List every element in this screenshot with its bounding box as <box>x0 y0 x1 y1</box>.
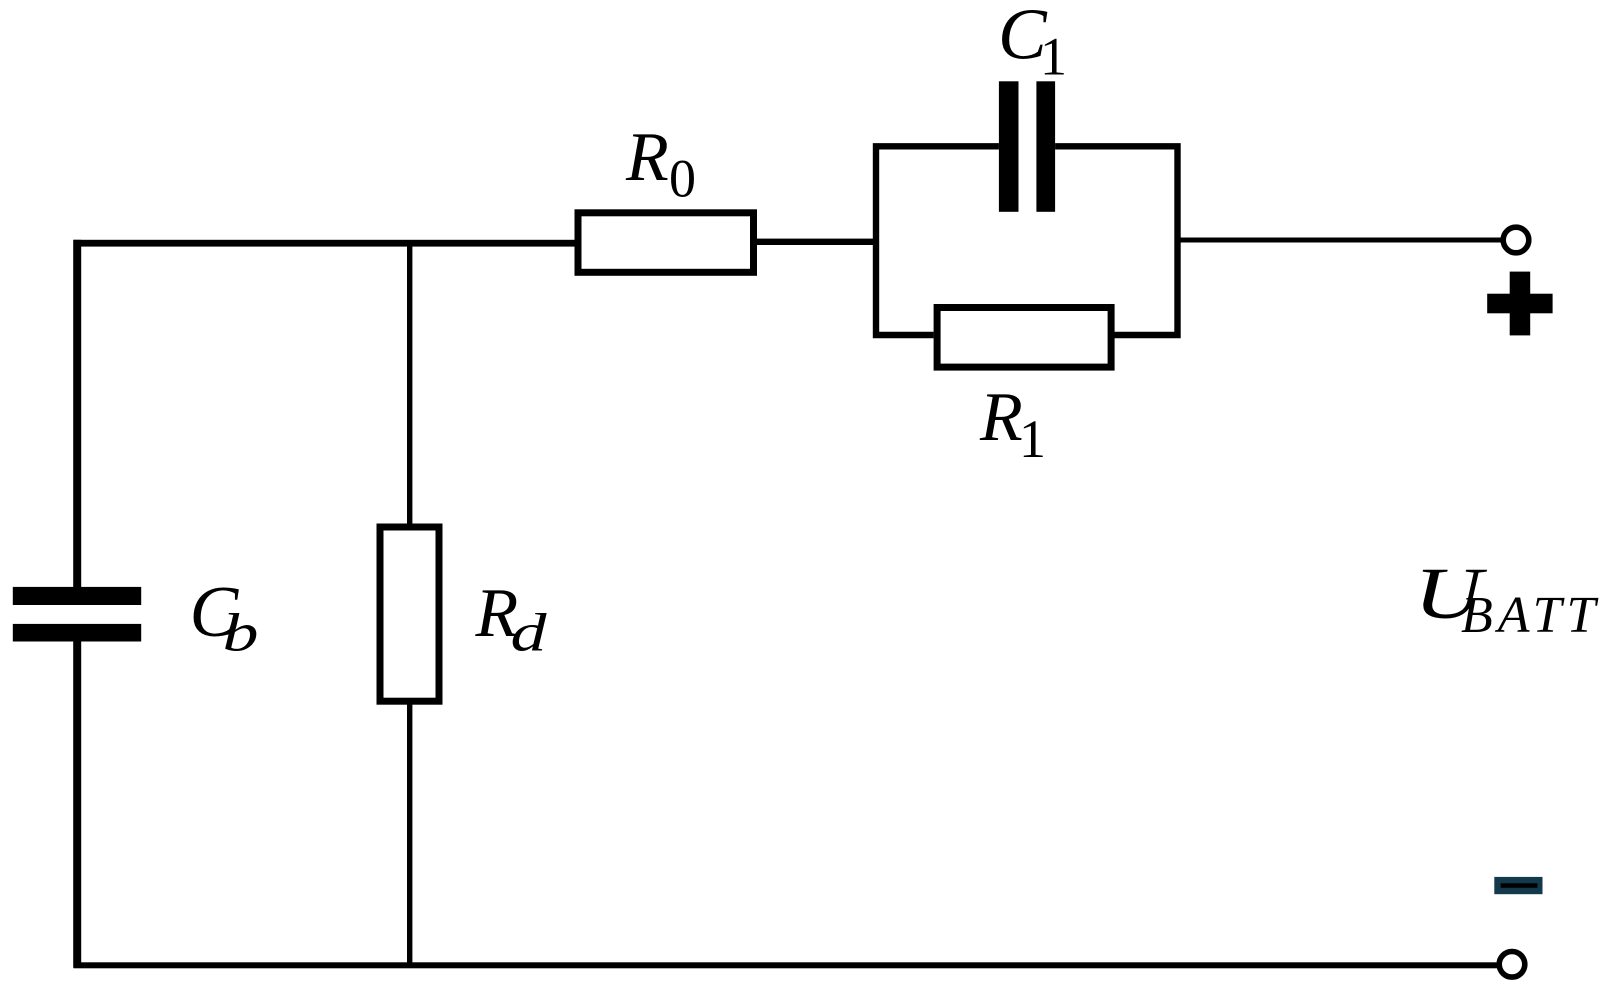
capacitor C1 left plate <box>999 81 1019 212</box>
capacitor Cb bottom plate <box>13 624 141 642</box>
capacitor C1 right plate <box>1036 81 1055 212</box>
wire Rd branch upper <box>407 240 412 527</box>
svg-text:1: 1 <box>1040 27 1067 87</box>
wire R0 to parallel block <box>754 239 877 245</box>
svg-text:b: b <box>223 603 259 663</box>
resistor R0 <box>578 213 754 272</box>
wire bottom horizontal <box>74 962 1500 968</box>
svg-text:BATT: BATT <box>1461 587 1600 644</box>
terminal node positive (circle) <box>1503 227 1529 253</box>
svg-text:d: d <box>511 603 548 663</box>
svg-text:R: R <box>625 119 669 196</box>
wire Rd branch lower <box>407 701 412 964</box>
plus symbol <box>1510 272 1531 336</box>
capacitor Cb top plate <box>13 587 141 605</box>
wire top horizontal left segment <box>74 240 577 247</box>
wire left vertical lower <box>73 642 81 968</box>
wire left vertical upper <box>73 240 81 590</box>
parallel block loop left half: top-left and left side and bottom-left <box>876 146 999 335</box>
minus symbol (teal highlighted) <box>1494 877 1542 894</box>
resistor Rd <box>380 527 439 701</box>
svg-text:1: 1 <box>1019 409 1046 469</box>
terminal node negative (circle) <box>1499 952 1525 978</box>
svg-text:R: R <box>979 379 1023 456</box>
resistor R1 <box>937 308 1111 368</box>
svg-text:0: 0 <box>669 149 696 209</box>
parallel block loop right half: top-right and right side and bottom-right <box>1055 146 1177 335</box>
wire parallel block to positive terminal <box>1178 238 1504 243</box>
